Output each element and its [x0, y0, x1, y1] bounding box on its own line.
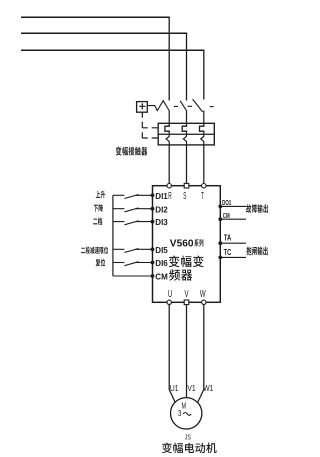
svg-text:TA: TA: [224, 235, 231, 243]
wire SB3 speed2 to terminal: [136, 221, 153, 223]
label 变幅变: [169, 256, 204, 268]
wire output CM: [220, 218, 246, 220]
wire W to motor: [197, 305, 203, 403]
wire L1 drop to breaker: [168, 17, 170, 100]
wire output TA: [220, 242, 246, 244]
svg-text:V1: V1: [187, 383, 195, 393]
terminal DO1 dot: [218, 205, 222, 209]
svg-text:DI1: DI1: [155, 192, 168, 201]
wire output DO1: [220, 205, 246, 207]
label 复位: [96, 259, 105, 267]
label motor tilde: [183, 413, 191, 416]
wire V to motor: [186, 305, 188, 398]
label 抱闸输出: [246, 247, 267, 256]
wire L1 phase bus: [21, 16, 170, 18]
svg-text:W: W: [200, 287, 206, 299]
breaker QF linkage dash 1: [174, 105, 178, 107]
wire breaker pole 1 to overload relay: [168, 111, 170, 124]
wire overload relay to inverter S: [186, 145, 188, 184]
thermal overload relay FR middle bar: [158, 133, 214, 135]
svg-text:DI5: DI5: [155, 246, 168, 255]
terminal CM dot: [218, 217, 222, 221]
terminal CM dot left: [151, 274, 155, 278]
wire SB4 reset to terminal: [136, 262, 153, 264]
wire output TC: [220, 256, 246, 258]
wire SB1 up to terminal: [136, 194, 153, 196]
terminal U: [167, 300, 171, 304]
svg-text:DI6: DI6: [155, 259, 168, 268]
svg-text:R: R: [168, 190, 172, 202]
thermal overload relay FR body: [158, 123, 214, 145]
wire common to CM: [113, 275, 153, 277]
wire SB2 down stub: [113, 208, 125, 210]
wire control common bus: [112, 195, 114, 276]
terminal W: [202, 300, 206, 304]
svg-text:V: V: [184, 287, 188, 299]
terminal DI2 dot: [151, 207, 155, 211]
wire SB4 reset stub: [113, 262, 125, 264]
label 变幅电动机: [162, 443, 217, 454]
svg-text:S: S: [183, 190, 186, 202]
svg-text:DI2: DI2: [155, 205, 168, 214]
terminal DI3 dot: [151, 220, 155, 224]
switch SB4 reset blade: [124, 262, 138, 266]
breaker QF pole 1 link and blade: [147, 101, 169, 111]
svg-text:DO1: DO1: [222, 200, 232, 207]
breaker QF pole 3 blade: [193, 99, 203, 112]
svg-text:TC: TC: [224, 249, 232, 257]
overload relay heater element 2: [182, 123, 187, 131]
wire SB3 speed2 stub: [113, 221, 125, 223]
svg-text:V560: V560: [170, 239, 194, 250]
breaker QF linkage dash 2: [188, 105, 193, 107]
terminal TC dot: [218, 256, 222, 260]
svg-text:U: U: [168, 287, 172, 299]
wire SB1 up stub: [113, 194, 125, 196]
wire L3 drop to breaker: [203, 50, 205, 99]
svg-text:T: T: [201, 190, 204, 202]
wire overload relay to inverter T: [203, 145, 205, 184]
overload relay release contact 1: [166, 131, 169, 145]
wire SQ1 decel limit stub: [113, 248, 125, 250]
svg-text:CM: CM: [223, 213, 230, 220]
overload relay release contact 3: [201, 131, 204, 145]
breaker trip linkage dashed: [142, 122, 157, 139]
wire overload relay to inverter R: [168, 145, 170, 184]
wire L3 phase bus: [21, 49, 204, 51]
breaker QF operator stub: [141, 112, 143, 118]
svg-text:DI3: DI3: [155, 218, 168, 227]
breaker QF pole 2 blade: [180, 101, 186, 111]
terminal S: [184, 183, 189, 188]
motor M circle: [171, 398, 202, 429]
switch SB3 speed2 blade: [124, 221, 138, 225]
terminal TA dot: [218, 241, 222, 245]
label 二档: [93, 218, 102, 226]
overload relay release contact 2: [183, 131, 186, 145]
label 故障输出: [246, 204, 268, 213]
overload relay heater element 3: [200, 123, 205, 131]
terminal DI6 dot: [151, 261, 155, 265]
circuit breaker QF operator box: [137, 102, 148, 113]
terminal V: [184, 300, 189, 305]
wire SB2 down to terminal: [136, 208, 153, 210]
terminal R: [167, 184, 171, 188]
terminal DI1 dot: [151, 193, 155, 197]
label 下降: [94, 204, 103, 211]
wire breaker pole 2 to overload relay: [186, 111, 188, 124]
terminal T: [202, 184, 206, 188]
wire U to motor: [169, 305, 175, 403]
breaker QF linkage dash 3: [210, 106, 214, 108]
wire L2 drop to breaker: [186, 33, 188, 100]
wire L2 phase bus: [21, 32, 187, 34]
label 上升: [96, 191, 105, 198]
switch SB2 down blade: [124, 208, 138, 212]
overload relay heater element 1: [165, 123, 170, 131]
breaker QF plus symbol: [139, 103, 145, 109]
terminal DI5 dot: [151, 247, 155, 251]
wire SQ1 decel limit to terminal: [136, 248, 153, 250]
svg-text:CM: CM: [155, 273, 168, 282]
svg-text:M: M: [181, 403, 186, 411]
label contactor 变幅接触器: [116, 147, 147, 156]
label 系列: [194, 239, 203, 246]
wire breaker pole 3 to overload relay: [203, 111, 205, 124]
switch SQ1 decel limit blade: [124, 249, 138, 253]
label 频器: [169, 269, 192, 281]
inverter U1 V560 body: [153, 186, 221, 303]
svg-text:U1: U1: [170, 383, 179, 393]
svg-text:JS: JS: [185, 434, 191, 442]
label 二段减速限位: [81, 247, 108, 254]
svg-text:W1: W1: [203, 383, 213, 393]
switch SB1 up blade: [124, 195, 138, 199]
svg-text:3: 3: [178, 408, 182, 418]
